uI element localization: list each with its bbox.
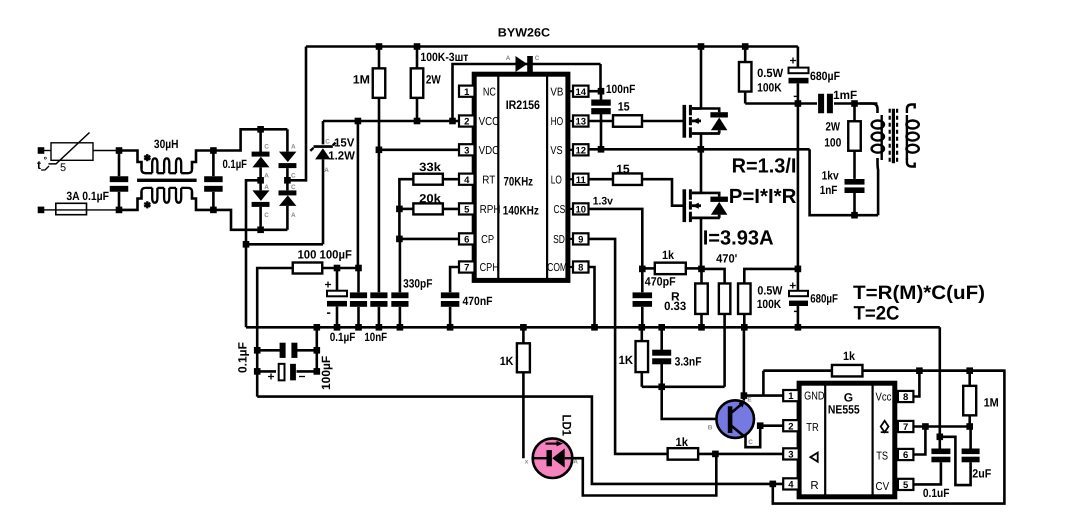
svg-text:680µF: 680µF bbox=[810, 69, 840, 83]
svg-text:C: C bbox=[748, 439, 753, 446]
wire Q2 source to CS node bbox=[700, 218, 703, 269]
wire VCC vert bbox=[357, 121, 360, 268]
svg-text:VCC: VCC bbox=[479, 116, 500, 128]
transformer T1 secondary bbox=[907, 105, 915, 114]
svg-text:5: 5 bbox=[60, 162, 66, 174]
node VDC bbox=[376, 147, 383, 154]
svg-text:11: 11 bbox=[576, 175, 587, 186]
wire COM to ground rail bbox=[589, 267, 595, 327]
svg-text:BYW26C: BYW26C bbox=[498, 26, 551, 40]
node BYW26C anode drop bbox=[449, 118, 456, 125]
svg-text:CPH: CPH bbox=[480, 262, 499, 274]
node 100nF-VS bbox=[598, 146, 605, 153]
wire down to CP row bbox=[398, 209, 401, 239]
wire Q1 source to VS bbox=[700, 134, 703, 150]
svg-text:RT: RT bbox=[482, 174, 495, 186]
node VB bbox=[598, 88, 605, 95]
svg-text:1k: 1k bbox=[843, 349, 855, 363]
node VCC-cap bbox=[355, 265, 362, 272]
wire base to Q3 bbox=[662, 387, 717, 419]
svg-text:CS: CS bbox=[554, 204, 566, 216]
node fuse-cap bottom bbox=[116, 207, 123, 214]
choke bottom winding bbox=[119, 192, 142, 210]
node X cap top bbox=[210, 147, 217, 154]
wire zener anode row bbox=[246, 243, 323, 246]
svg-text:VB: VB bbox=[550, 86, 563, 98]
MOSFET Q2 low-side bbox=[682, 189, 686, 222]
svg-text:NE555: NE555 bbox=[828, 403, 860, 417]
top rail +310V bbox=[306, 45, 798, 48]
svg-text:2: 2 bbox=[464, 117, 469, 128]
node CS-R033 bbox=[698, 266, 705, 273]
IC U2 NE555 body bbox=[799, 383, 895, 497]
choke star mark bottom bbox=[144, 201, 150, 208]
svg-text:100K: 100K bbox=[757, 297, 782, 311]
svg-text:T=R(M)*C(uF): T=R(M)*C(uF) bbox=[853, 282, 985, 304]
input terminal top (node L) bbox=[38, 147, 45, 154]
wire TS to pin7 bbox=[913, 427, 925, 455]
svg-text:NC: NC bbox=[483, 86, 496, 98]
svg-text:C: C bbox=[264, 143, 269, 150]
node zener-VCC vert bbox=[355, 118, 362, 125]
svg-text:6: 6 bbox=[903, 450, 908, 461]
svg-text:33k: 33k bbox=[419, 160, 441, 174]
svg-text:+: + bbox=[790, 54, 797, 68]
wire VB to 100nF node bbox=[589, 90, 602, 93]
svg-text:100 100µF: 100 100µF bbox=[298, 247, 352, 261]
node aux right vert bbox=[315, 327, 318, 371]
bridge diode D4 (right bottom) bbox=[286, 180, 289, 190]
capacitor 0.1uF input bbox=[118, 151, 121, 177]
svg-text:A: A bbox=[264, 184, 269, 191]
node ground-left bbox=[243, 241, 250, 248]
wire VS to output return bbox=[810, 149, 879, 215]
node X cap bottom bbox=[210, 207, 217, 214]
wire HO row bbox=[589, 120, 614, 123]
bridge node AC2 bbox=[257, 227, 264, 234]
svg-text:140KHz: 140KHz bbox=[503, 204, 539, 218]
svg-text:+: + bbox=[325, 278, 332, 292]
wire SD pin down to NE555 1k bbox=[589, 239, 668, 454]
bridge node DC-minus bbox=[257, 177, 264, 184]
svg-text:1kv: 1kv bbox=[822, 168, 839, 182]
svg-text:A: A bbox=[291, 143, 296, 150]
wire diode to VB node bbox=[599, 64, 602, 91]
node 2W-VCC bbox=[414, 118, 421, 125]
wire LO to Q2 gate bbox=[642, 179, 684, 206]
wire Q3 emitter to rail bbox=[743, 327, 746, 400]
svg-text:A: A bbox=[324, 167, 329, 174]
svg-text:C: C bbox=[325, 138, 330, 145]
node TR bbox=[757, 422, 764, 429]
svg-text:1k: 1k bbox=[662, 248, 674, 262]
svg-text:CP: CP bbox=[481, 234, 494, 246]
node CS-470pF bbox=[639, 266, 646, 273]
diode body Q2 bbox=[701, 193, 719, 197]
svg-text:8: 8 bbox=[578, 263, 583, 274]
bridge node DC-plus bbox=[284, 177, 291, 184]
node 0.1uF-2uF gnd bbox=[937, 434, 944, 441]
svg-text:+: + bbox=[268, 370, 275, 384]
svg-text:2W: 2W bbox=[426, 73, 441, 87]
svg-text:-: - bbox=[794, 304, 798, 318]
wire bbox=[87, 209, 120, 211]
IC U1 pins right 14-8 bbox=[568, 90, 573, 92]
svg-text:+: + bbox=[789, 279, 796, 293]
node base bbox=[658, 384, 665, 391]
node after thermistor bbox=[116, 147, 123, 154]
svg-text:B: B bbox=[708, 425, 713, 432]
svg-text:R: R bbox=[810, 480, 818, 492]
wire Q2 drain to VS bbox=[700, 149, 703, 193]
wire DC-plus to top rail bbox=[287, 47, 306, 181]
svg-text:Vcc: Vcc bbox=[876, 391, 892, 403]
svg-text:−: − bbox=[299, 370, 306, 384]
svg-text:TR: TR bbox=[806, 422, 819, 434]
svg-text:A: A bbox=[264, 173, 269, 180]
ground rail bbox=[246, 326, 940, 329]
wire 2uF bottom dogleg bbox=[940, 437, 971, 485]
node 100K top bbox=[795, 266, 802, 273]
svg-text:15: 15 bbox=[618, 100, 630, 114]
node 2W100 top bbox=[851, 100, 858, 107]
svg-text:1: 1 bbox=[788, 391, 794, 402]
svg-text:1nF: 1nF bbox=[820, 183, 838, 197]
resistor 0.5W 100K upper bbox=[742, 43, 749, 50]
svg-text:LD1: LD1 bbox=[560, 415, 574, 437]
IC U1 pins left 1-7 bbox=[459, 86, 475, 97]
svg-text:4: 4 bbox=[788, 480, 794, 491]
choke star mark top bbox=[144, 154, 150, 161]
svg-text:100K: 100K bbox=[757, 80, 782, 94]
node R row bbox=[770, 481, 777, 488]
svg-text:HO: HO bbox=[551, 116, 564, 128]
input terminal bottom (node N) bbox=[38, 207, 45, 214]
svg-text:10: 10 bbox=[575, 205, 586, 216]
node 1M top bbox=[966, 367, 973, 374]
svg-text:470pF: 470pF bbox=[645, 274, 676, 288]
node pin7-TS bbox=[922, 423, 929, 430]
svg-text:1.3v: 1.3v bbox=[593, 196, 614, 208]
svg-text:100µF: 100µF bbox=[319, 356, 333, 390]
svg-text:COM: COM bbox=[547, 262, 567, 274]
svg-text:5: 5 bbox=[903, 480, 909, 491]
svg-text:E: E bbox=[747, 396, 752, 403]
IC U2 pins right 8-5 bbox=[895, 395, 898, 397]
node RT-RPH bbox=[396, 206, 403, 213]
node VS-Q1Q2 bbox=[698, 146, 705, 153]
svg-text:1M: 1M bbox=[353, 73, 370, 87]
svg-text:2: 2 bbox=[788, 421, 793, 432]
node Vcc bbox=[916, 367, 923, 374]
bridge diode D1 (left top) bbox=[259, 129, 262, 152]
svg-text:IR2156: IR2156 bbox=[506, 98, 540, 112]
svg-text:LO: LO bbox=[551, 174, 562, 186]
bridge node AC1 bbox=[257, 126, 264, 133]
bridge diode D2 (left bottom) bbox=[259, 180, 262, 190]
svg-text:0.5W: 0.5W bbox=[757, 284, 783, 298]
node CP bbox=[396, 236, 403, 243]
svg-text:C: C bbox=[291, 173, 296, 180]
svg-text:0.1µF: 0.1µF bbox=[236, 342, 250, 373]
svg-text:0.5W: 0.5W bbox=[757, 66, 784, 80]
diode body Q1 bbox=[701, 109, 719, 113]
resistor 100K-3sht 2W bbox=[414, 43, 421, 50]
svg-text:0.1uF: 0.1uF bbox=[923, 486, 950, 500]
svg-text:R=1.3/I: R=1.3/I bbox=[732, 155, 797, 178]
wire R row to bottom rail bbox=[763, 371, 1004, 504]
svg-text:9: 9 bbox=[578, 235, 583, 246]
svg-text:470': 470' bbox=[716, 252, 737, 266]
wire DC blocking row bbox=[745, 102, 817, 105]
resistor 1M top bbox=[376, 43, 383, 50]
svg-text:SD: SD bbox=[553, 234, 565, 246]
transformer T1 primary bbox=[860, 104, 878, 114]
svg-text:3A 0.1µF: 3A 0.1µF bbox=[66, 189, 109, 203]
wire bbox=[93, 150, 119, 152]
svg-text:-: - bbox=[327, 305, 331, 320]
wire VCC row bbox=[323, 120, 459, 123]
svg-text:T=2C: T=2C bbox=[854, 302, 900, 324]
svg-text:8: 8 bbox=[903, 392, 908, 403]
svg-text:x: x bbox=[525, 459, 529, 466]
svg-text:5: 5 bbox=[464, 205, 470, 216]
wire pin7 row bbox=[913, 425, 969, 428]
svg-text:3.3nF: 3.3nF bbox=[675, 354, 702, 368]
wire to bridge AC2 bbox=[213, 210, 287, 230]
transistor Q3 bbox=[716, 400, 754, 438]
svg-text:1: 1 bbox=[464, 87, 470, 98]
svg-text:P=I*I*R: P=I*I*R bbox=[729, 185, 797, 208]
MOSFET Q1 high-side bbox=[682, 105, 686, 138]
svg-text:VS: VS bbox=[550, 145, 562, 157]
wire 2uF top to pin7 row bbox=[969, 427, 972, 449]
node output return bbox=[851, 212, 858, 219]
svg-text:C: C bbox=[291, 184, 296, 191]
wire CPH to 470nF bbox=[450, 267, 460, 292]
wire Q3 collector to TR bbox=[744, 426, 761, 448]
node Q3 top / GND row bbox=[741, 392, 748, 399]
svg-text:10nF: 10nF bbox=[364, 330, 387, 344]
IC U1 IR2156 body bbox=[474, 74, 568, 280]
svg-text:7: 7 bbox=[903, 422, 908, 433]
wire TR row bbox=[760, 424, 783, 427]
svg-text:4: 4 bbox=[464, 175, 470, 186]
svg-text:1K: 1K bbox=[619, 353, 634, 367]
svg-text:°: ° bbox=[44, 155, 48, 165]
svg-text:14: 14 bbox=[575, 87, 586, 98]
svg-text:1.2W: 1.2W bbox=[328, 148, 355, 162]
wire bbox=[41, 150, 51, 152]
svg-text:C: C bbox=[264, 212, 269, 219]
svg-text:VDC: VDC bbox=[479, 145, 500, 157]
wire base node row bbox=[642, 385, 725, 388]
wire Vcc to 1k rail bbox=[913, 371, 919, 397]
svg-text:C: C bbox=[535, 55, 540, 62]
svg-text:A: A bbox=[291, 212, 296, 219]
wire 470' bottom crossing rail bbox=[723, 314, 726, 387]
svg-text:1K: 1K bbox=[500, 354, 514, 368]
svg-text:100nF: 100nF bbox=[606, 82, 635, 96]
svg-text:7: 7 bbox=[464, 263, 469, 274]
svg-text:1M: 1M bbox=[984, 395, 999, 409]
svg-text:0.33: 0.33 bbox=[664, 299, 686, 313]
svg-text:0.1µF: 0.1µF bbox=[223, 157, 248, 171]
capacitor 100uF electrolytic bbox=[336, 268, 339, 290]
node pin7-1M bbox=[966, 423, 973, 430]
svg-text:2uF: 2uF bbox=[972, 467, 991, 481]
svg-text:6: 6 bbox=[464, 235, 469, 246]
thermistor t 5 bbox=[51, 143, 93, 161]
wire rail end down to 0.1uF bbox=[938, 327, 941, 448]
svg-text:470nF: 470nF bbox=[463, 294, 493, 308]
svg-text:A: A bbox=[573, 459, 578, 466]
transformer T1 core bbox=[889, 109, 891, 164]
svg-text:0.1µF: 0.1µF bbox=[330, 330, 356, 344]
svg-text:100: 100 bbox=[824, 135, 841, 149]
svg-text:2W: 2W bbox=[826, 119, 841, 133]
svg-text:GND: GND bbox=[804, 391, 824, 403]
svg-text:680µF: 680µF bbox=[810, 292, 838, 306]
svg-text:A: A bbox=[506, 55, 511, 62]
wire BYW26C anode bbox=[453, 64, 601, 121]
bridge diode D3 (right top) bbox=[286, 129, 289, 151]
svg-text:30µH: 30µH bbox=[154, 137, 179, 151]
zener diode 15V 1.2W bbox=[322, 121, 325, 144]
wire LO row bbox=[589, 178, 614, 181]
svg-text:3: 3 bbox=[788, 450, 793, 461]
svg-text:70KHz: 70KHz bbox=[504, 174, 534, 188]
wire 1M to VDC bbox=[378, 98, 381, 150]
svg-text:I=3.93A: I=3.93A bbox=[703, 226, 774, 249]
wire DC-minus to ground rail and zener row bbox=[246, 180, 261, 327]
wire HO gate bbox=[642, 120, 684, 123]
LED LD1 bbox=[533, 438, 573, 478]
svg-text:t: t bbox=[37, 158, 41, 172]
svg-text:RPH: RPH bbox=[480, 204, 501, 216]
svg-text:1mF: 1mF bbox=[833, 88, 857, 102]
wire to bridge AC1 bbox=[213, 129, 287, 150]
svg-text:13: 13 bbox=[575, 117, 586, 128]
choke core bbox=[137, 179, 197, 182]
wire CP row bbox=[399, 238, 459, 241]
svg-text:CV: CV bbox=[876, 481, 890, 493]
node 100uF top bbox=[334, 265, 341, 272]
IC U2 pins left 1-4 bbox=[783, 390, 799, 401]
svg-text:330pF: 330pF bbox=[403, 276, 432, 290]
svg-text:TS: TS bbox=[876, 450, 888, 462]
node OUT-LED bbox=[712, 451, 719, 458]
svg-text:12: 12 bbox=[575, 145, 586, 156]
wire main divider vertical bbox=[797, 104, 800, 269]
node vert-tap bbox=[795, 100, 802, 107]
wire 1k-left drop bbox=[762, 371, 765, 396]
fuse 3A bbox=[41, 209, 56, 211]
wire long bottom-left loop to NE555 R row bbox=[257, 397, 783, 484]
wire VS row bbox=[589, 148, 810, 151]
wire LED to NE555 out loop bbox=[572, 454, 716, 496]
wire GND row NE555 bbox=[744, 394, 783, 397]
wire Q1 drain to rail bbox=[700, 47, 703, 109]
svg-text:3: 3 bbox=[464, 145, 469, 156]
svg-text:100K-3шт: 100K-3шт bbox=[420, 50, 468, 64]
